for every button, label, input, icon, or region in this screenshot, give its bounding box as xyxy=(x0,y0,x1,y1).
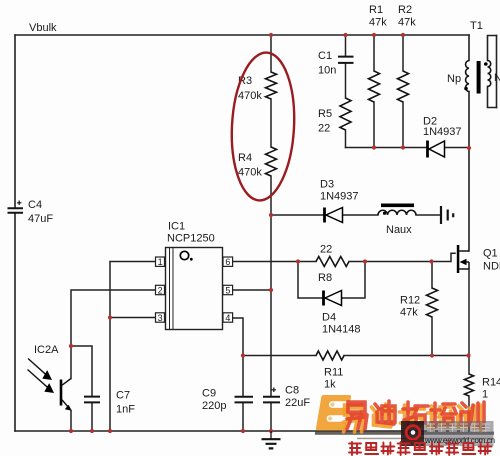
transformer T1 xyxy=(464,61,491,94)
resistor R14 1 xyxy=(465,374,474,396)
node bottom rail junctions xyxy=(69,429,73,433)
svg-text:NDF: NDF xyxy=(483,261,500,273)
pin 5 xyxy=(223,285,233,295)
wire secondary right side xyxy=(496,36,498,108)
watermark E logo xyxy=(316,395,351,431)
resistor R8 22 xyxy=(316,257,349,267)
node gate rail junctions xyxy=(296,259,300,263)
wire Vcc divider line xyxy=(270,35,272,431)
node Vcc D3 junction xyxy=(269,213,273,217)
node clamp rail junctions xyxy=(372,145,376,149)
svg-text:22: 22 xyxy=(320,244,332,256)
node Vcc pin5 junction xyxy=(269,288,273,292)
svg-text:47k: 47k xyxy=(369,17,387,29)
wire clamp rail xyxy=(346,147,427,149)
node top rail junctions xyxy=(269,33,273,37)
svg-text:R2: R2 xyxy=(398,4,412,16)
wire pin4 to C9 xyxy=(233,318,243,431)
ground sideways after Naux xyxy=(441,206,453,224)
svg-text:47k: 47k xyxy=(398,17,416,29)
svg-text:www.eeworld.com.cn: www.eeworld.com.cn xyxy=(424,436,495,445)
svg-text:2: 2 xyxy=(158,285,163,295)
diode D4 1N4148 xyxy=(324,291,342,306)
wire opto emitter lead xyxy=(70,411,72,432)
svg-text:22uF: 22uF xyxy=(285,397,310,409)
wire pin5 stub xyxy=(233,289,271,291)
svg-text:470k: 470k xyxy=(238,90,262,102)
wire top rail Vbulk xyxy=(15,34,469,36)
svg-text:Q1: Q1 xyxy=(483,248,498,260)
wire secondary top xyxy=(488,36,497,61)
svg-text:1k: 1k xyxy=(324,379,336,391)
node opto collector junction xyxy=(69,344,73,348)
wire C1 R5 branch xyxy=(345,35,347,148)
wire R1 branch xyxy=(373,35,375,148)
resistor R3 470k xyxy=(266,72,277,99)
svg-text:IC2A: IC2A xyxy=(34,344,59,356)
wire D3 branch xyxy=(271,214,440,216)
wire pin6 gate rail xyxy=(233,253,455,261)
pin 4 xyxy=(223,313,233,323)
watermark shadow text 易迪拓培训 (orange layer) xyxy=(344,404,481,432)
optocoupler IC2A xyxy=(28,359,72,411)
svg-text:1: 1 xyxy=(482,389,488,401)
svg-text:6: 6 xyxy=(225,257,230,267)
capacitor C8 22uF xyxy=(263,388,280,403)
svg-text:D4: D4 xyxy=(322,312,336,324)
wire Q1 source to R14 xyxy=(468,269,470,431)
node pin3 junction xyxy=(108,315,112,319)
node switch node junction xyxy=(467,146,471,150)
wire primary drain line xyxy=(468,35,470,251)
svg-text:47k: 47k xyxy=(400,307,418,319)
svg-text:R14: R14 xyxy=(482,377,500,389)
wire C7 branch xyxy=(71,346,92,431)
svg-text:R1: R1 xyxy=(369,4,383,16)
svg-text:C8: C8 xyxy=(285,385,299,397)
wire R12 leads xyxy=(431,262,433,356)
svg-text:R4: R4 xyxy=(238,152,252,164)
svg-text:5: 5 xyxy=(225,285,230,295)
wire secondary bottom xyxy=(488,87,497,108)
pin 2 xyxy=(156,285,165,295)
svg-text:NCP1250: NCP1250 xyxy=(167,233,215,245)
svg-text:N: N xyxy=(494,72,500,84)
svg-text:C1: C1 xyxy=(318,50,332,62)
capacitor C4 47uF xyxy=(8,201,24,213)
highlight ellipse around R3 R4 xyxy=(228,51,298,202)
svg-text:R12: R12 xyxy=(400,295,420,307)
resistor R1 47k xyxy=(369,71,380,102)
watermark main text 易迪拓培训 (red layer) xyxy=(347,401,484,429)
svg-text:Np: Np xyxy=(447,73,461,85)
diode D2 1N4937 xyxy=(428,141,445,158)
svg-text:C7: C7 xyxy=(116,390,130,402)
svg-text:220p: 220p xyxy=(202,400,226,412)
watermark strip text line1 xyxy=(427,423,490,432)
op-amp U1 IC1 NCP1250 body xyxy=(166,248,223,330)
svg-text:C4: C4 xyxy=(28,199,42,211)
wire pin1 to ground line xyxy=(110,262,156,432)
capacitor C1 10n xyxy=(338,57,354,63)
watermark dark strip xyxy=(424,421,494,446)
resistor R5 22 xyxy=(340,98,351,130)
svg-text:3: 3 xyxy=(158,313,163,323)
resistor R12 47k xyxy=(427,288,438,317)
svg-text:4: 4 xyxy=(225,313,230,323)
svg-text:10n: 10n xyxy=(318,65,336,77)
svg-text:IC1: IC1 xyxy=(168,221,185,233)
svg-text:D3: D3 xyxy=(320,179,334,191)
svg-text:Naux: Naux xyxy=(386,224,412,236)
wire bottom rail xyxy=(15,430,469,432)
svg-text:1nF: 1nF xyxy=(116,404,135,416)
svg-text:22: 22 xyxy=(318,123,330,135)
transistor Q1 MOSFET xyxy=(457,245,469,273)
wire left rail xyxy=(14,35,16,431)
wire R2 branch xyxy=(402,35,404,148)
wire R11 rail xyxy=(243,355,469,357)
wire pin2 to opto collector xyxy=(71,290,156,379)
watermark logo square xyxy=(401,421,424,446)
svg-text:470k: 470k xyxy=(238,167,262,179)
watermark underline bar xyxy=(315,432,494,435)
svg-text:R11: R11 xyxy=(324,367,343,379)
ground bottom xyxy=(262,431,281,448)
diode D3 1N4937 xyxy=(325,208,343,223)
svg-text:R8: R8 xyxy=(318,272,332,284)
pin 3 xyxy=(156,313,165,323)
svg-text:1N4937: 1N4937 xyxy=(423,126,462,138)
wire D4 loop xyxy=(298,262,365,299)
svg-text:T1: T1 xyxy=(470,20,483,32)
inductor Naux winding xyxy=(378,204,416,216)
svg-text:1N4937: 1N4937 xyxy=(320,191,359,203)
watermark red slogan 射频和天线设计专家 xyxy=(349,442,492,455)
pin 1 xyxy=(156,257,165,267)
resistor R11 1k xyxy=(316,351,344,360)
resistor R4 470k xyxy=(266,147,277,176)
svg-text:1: 1 xyxy=(158,257,163,267)
wire D2 to switch node xyxy=(445,147,470,149)
svg-text:Vbulk: Vbulk xyxy=(29,22,57,34)
capacitor C7 1nF xyxy=(84,397,100,403)
pin 6 xyxy=(223,257,233,267)
capacitor C9 220p xyxy=(235,397,254,403)
svg-text:1N4148: 1N4148 xyxy=(322,324,361,336)
node R11 rail junctions xyxy=(241,353,245,357)
resistor R2 47k xyxy=(398,71,409,102)
wire pin3 stub xyxy=(110,317,156,319)
svg-text:47uF: 47uF xyxy=(28,213,53,225)
svg-text:R5: R5 xyxy=(318,108,332,120)
watermark underline thin bar xyxy=(357,438,493,440)
svg-text:C9: C9 xyxy=(202,388,216,400)
